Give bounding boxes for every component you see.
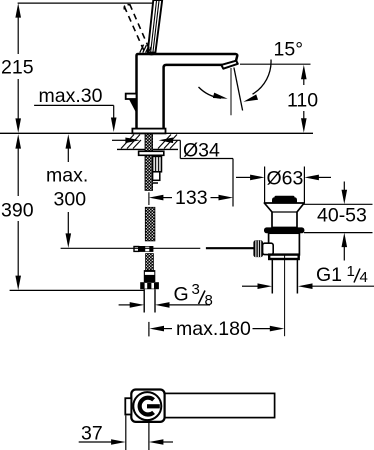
lever solid <box>147 0 162 55</box>
dim 110 <box>287 65 318 133</box>
node faucet axis extension <box>148 192 150 205</box>
flange <box>264 203 304 228</box>
svg-text:max.30: max.30 <box>39 85 103 107</box>
stream line 15deg <box>234 68 243 111</box>
faucet body outline <box>137 54 238 129</box>
body below seal <box>269 233 300 255</box>
svg-text:133: 133 <box>175 187 208 209</box>
pop-up rod crossing fitting <box>134 246 153 252</box>
top view: left tab <box>125 398 131 414</box>
dim Ø34 <box>112 138 233 162</box>
dim G1 1/4 <box>242 263 374 289</box>
svg-text:390: 390 <box>1 200 34 222</box>
seal ring <box>264 227 304 233</box>
dim 390 <box>1 134 34 290</box>
lever landing ticks <box>140 45 151 53</box>
swivel reference vertical line <box>230 68 232 115</box>
dim max.30 note <box>34 85 116 132</box>
connection pipes G3/8 <box>144 289 155 312</box>
dim 40-53 <box>303 182 373 261</box>
svg-text:37: 37 <box>81 423 103 445</box>
top view: handle square <box>131 390 164 422</box>
knob stem <box>263 243 274 254</box>
svg-text:Ø63: Ø63 <box>267 168 304 190</box>
svg-text:300: 300 <box>54 189 87 211</box>
top view: G emblem <box>140 398 160 415</box>
wire deck bottom line <box>117 148 178 150</box>
svg-text:Ø34: Ø34 <box>183 140 220 162</box>
side lever small knob <box>126 94 137 99</box>
drain: pop-up waste set <box>253 196 304 294</box>
mounting bolt right of shank <box>153 156 162 183</box>
swivel arc right <box>242 60 271 105</box>
flexible hose lower <box>146 254 154 271</box>
flexible hose upper <box>145 207 155 241</box>
dim G3/8 <box>119 281 213 309</box>
svg-text:G: G <box>174 284 189 306</box>
svg-text:max.180: max.180 <box>176 318 251 340</box>
swivel arc left <box>199 87 229 102</box>
threaded shank below deck <box>145 134 153 190</box>
dim 37 <box>79 416 173 450</box>
knurled knob <box>253 240 263 257</box>
tailpipe <box>271 259 273 294</box>
svg-text:1: 1 <box>347 263 355 280</box>
faucet base plate <box>132 129 165 134</box>
svg-text:40-53: 40-53 <box>317 205 367 227</box>
dim max.300 <box>46 134 88 248</box>
dim max.180 <box>149 318 284 340</box>
svg-text:max.: max. <box>46 165 88 187</box>
deck hatch right <box>158 135 178 149</box>
node drain axis <box>284 254 286 337</box>
deck hatch left <box>121 135 141 149</box>
top view: spout rectangle <box>160 393 275 417</box>
wire counter/deck top line <box>0 132 313 134</box>
top view: G emblem outer circle <box>133 392 161 420</box>
svg-text:4: 4 <box>360 269 368 286</box>
svg-text:8: 8 <box>205 292 213 309</box>
side lever wedge <box>129 99 137 113</box>
svg-text:215: 215 <box>1 57 34 79</box>
hose nut G3/8 <box>140 282 159 289</box>
dim Ø63 <box>236 167 331 203</box>
svg-text:110: 110 <box>287 90 318 112</box>
svg-text:15°: 15° <box>274 39 304 61</box>
svg-text:3: 3 <box>192 281 200 298</box>
lever dashed (alternate position) <box>124 4 149 51</box>
cap dome <box>272 197 297 202</box>
dim 215 <box>1 3 153 133</box>
aerator (15deg mousseur) <box>221 61 238 69</box>
washer under deck <box>139 151 164 155</box>
dim 15deg <box>240 39 311 65</box>
dim 133 <box>149 159 233 210</box>
svg-text:G1: G1 <box>316 264 342 286</box>
pop-up rod horizontal <box>61 247 201 249</box>
bottom ring <box>269 255 299 259</box>
wire 390 level line <box>10 289 144 291</box>
hose end fitting <box>144 270 156 282</box>
